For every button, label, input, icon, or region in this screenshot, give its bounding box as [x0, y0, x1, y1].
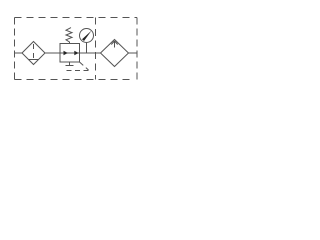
divider dashed line between regulator and lubricator sections: [95, 18, 97, 80]
wire: pipe regulator to lubricator: [80, 52, 101, 54]
enclosure dashed box (service unit assembly): [15, 18, 138, 80]
lubricator (right diamond with drip arrow): [101, 40, 129, 67]
pressure gauge G (circle with needle): [80, 29, 94, 54]
wire: outlet pipe lubricator to right border: [129, 52, 138, 54]
wire: pipe filter to regulator: [45, 52, 60, 54]
wire: inlet pipe from left border to filter: [15, 52, 23, 54]
regulator pilot feedback dashed line: [67, 62, 89, 71]
regulator vent (T): [66, 62, 74, 66]
regulator adjustment spring: [66, 28, 72, 44]
pressure regulator U1 (box with flow arrows): [60, 44, 80, 63]
filter with water separator (left diamond): [22, 42, 45, 65]
